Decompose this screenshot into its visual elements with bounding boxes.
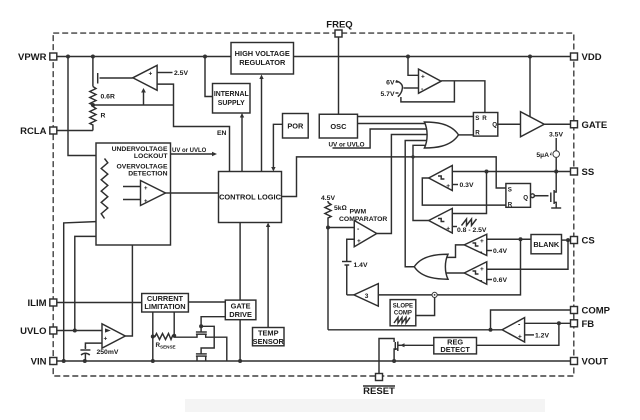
current source 5uA (553, 151, 560, 158)
svg-text:0.6R: 0.6R (101, 94, 115, 101)
block REG DETECT (434, 338, 477, 355)
dashed border of IC (53, 33, 574, 376)
node VDD-B (528, 55, 532, 59)
svg-text:DRIVE: DRIVE (229, 310, 252, 319)
svg-text:RCLA: RCLA (20, 126, 47, 137)
svg-text:COMP: COMP (394, 310, 412, 316)
battery 1.4V (342, 261, 352, 263)
block TEMP SENSOR (253, 328, 285, 347)
transistor driver FET1 (196, 331, 207, 333)
wire RCLA to R bottom (57, 130, 93, 132)
svg-text:+: + (446, 226, 450, 233)
wire 3.5V to current source to SS (555, 138, 557, 151)
wire OVP comp output to OR input5 (413, 145, 431, 220)
svg-text:SENSOR: SENSOR (253, 337, 285, 346)
wire FREQ to OSC (338, 37, 340, 114)
svg-text:Q: Q (492, 122, 497, 129)
svg-text:+: + (144, 199, 148, 205)
svg-text:RESET: RESET (363, 386, 395, 397)
wire control logic to HV regulator (arrow up) (261, 77, 263, 172)
transistor pass switch bar (97, 73, 99, 84)
wire OSC to latch S (358, 116, 474, 118)
node VPWR-A (66, 55, 70, 59)
reference 250mV (80, 349, 90, 351)
pin VPWR (50, 53, 57, 60)
wire gain3 amp output (347, 294, 354, 296)
wire 0.6V comp output to lower OR (445, 272, 465, 274)
node FB junction (557, 321, 561, 325)
wire VIN VOUT rail (57, 360, 571, 362)
block CONTROL LOGIC (219, 172, 282, 223)
block BLANK (531, 235, 562, 254)
svg-text:+: + (446, 183, 450, 190)
wire 4.5V reference chain (327, 201, 329, 203)
resistor 0.6R (90, 87, 96, 106)
wire UVLO box output to control logic (171, 192, 219, 194)
wire VPWR rail to HV regulator and VDD (57, 56, 231, 58)
svg-text:SUPPLY: SUPPLY (218, 100, 245, 107)
comparator 0.3V (points left) (429, 166, 453, 191)
svg-text:FREQ: FREQ (326, 20, 352, 31)
svg-text:S: S (475, 115, 479, 122)
pin VOUT (571, 358, 578, 365)
pin COMP (571, 307, 578, 314)
svg-text:+: + (149, 71, 153, 78)
wire UV or UVLO arrow (171, 153, 213, 155)
resistor UVLO divider (101, 159, 108, 219)
svg-text:UV or UVLO: UV or UVLO (172, 148, 207, 154)
pin RESET (376, 374, 383, 381)
op-amp 2.5V clamp (133, 65, 157, 90)
wire UVLO divider to rail (64, 219, 105, 362)
wire main OR to latch R2 (459, 134, 474, 136)
wire OVP comp output to latch R (441, 81, 485, 113)
wire REG DETECT to reset transistor (401, 344, 434, 346)
wire gate drive to driver FET1 gate (201, 317, 225, 332)
svg-text:BLANK: BLANK (533, 240, 560, 249)
node Rsense-R (172, 334, 176, 338)
node UVLO junction (73, 329, 77, 333)
block POR (283, 114, 309, 139)
wire SS to OVP2 comparator input (452, 172, 486, 214)
svg-text:VPWR: VPWR (18, 52, 47, 63)
comparator UVLO 250mV (points right) (102, 324, 125, 348)
node VPWR-C (203, 55, 207, 59)
svg-text:R: R (508, 202, 513, 209)
svg-text:+: + (518, 334, 522, 341)
svg-text:GATE: GATE (582, 120, 608, 131)
wire UVLO pin up to box (75, 236, 111, 330)
node mode line junction (411, 155, 414, 158)
svg-text:EN: EN (217, 130, 227, 137)
svg-text:SLOPE: SLOPE (393, 303, 413, 309)
wire UV or UVLO to OR input2 (333, 129, 431, 148)
wire divider feedback (93, 104, 174, 106)
amplifier gain 3 (points left) (354, 284, 378, 307)
wire current limitation to Rsense left (152, 312, 154, 337)
node VDD-A (406, 55, 410, 59)
pin RCLA (50, 127, 57, 134)
wire UVLO comparator ref (85, 343, 102, 349)
block HIGH VOLTAGE REGULATOR (231, 43, 294, 75)
node FET gate (199, 324, 203, 328)
svg-text:0.6V: 0.6V (493, 277, 507, 284)
wire FET gate cross link (201, 326, 214, 353)
svg-text:S: S (508, 187, 512, 194)
latch SS (S/R/Q) (506, 184, 549, 209)
svg-text:3.5V: 3.5V (549, 132, 563, 139)
pin ILIM (50, 299, 57, 306)
svg-text:Q: Q (523, 195, 528, 202)
wire control logic through gate drive to rail (239, 223, 241, 301)
svg-text:CONTROL LOGIC: CONTROL LOGIC (219, 193, 282, 202)
svg-text:UVLO: UVLO (20, 326, 46, 337)
wire ILIM to current limitation (57, 302, 142, 304)
wire control logic to mode line (282, 157, 506, 197)
wire SS line (452, 171, 570, 173)
hysteresis select 6V 5.7V (396, 81, 403, 97)
block INTERNAL SUPPLY (213, 84, 251, 114)
svg-text:INTERNAL: INTERNAL (214, 91, 249, 98)
gate-driver buffer triangle (521, 112, 545, 137)
node rail-B (83, 359, 87, 363)
svg-text:CS: CS (582, 236, 595, 247)
svg-text:+: + (104, 336, 108, 343)
block GATE DRIVE (225, 300, 256, 320)
svg-text:COMPARATOR: COMPARATOR (339, 216, 387, 223)
wire VDD to gate driver (529, 57, 531, 118)
wire control logic to internal supply (arrow up) (241, 115, 243, 172)
wire Rsense left to rail (152, 337, 154, 362)
comparator PWM (points right) (354, 221, 377, 247)
svg-text:VDD: VDD (582, 52, 602, 63)
svg-text:5kΩ: 5kΩ (334, 205, 347, 212)
node divider junction (91, 103, 95, 107)
svg-text:SS: SS (582, 167, 595, 178)
wire VPWR to internal supply (205, 57, 213, 97)
wire CS to 0.6V comparator plus (487, 240, 568, 269)
comparator 0.6V (points left) (464, 262, 487, 285)
pin SS (571, 168, 578, 175)
svg-text:0.4V: 0.4V (493, 248, 507, 255)
svg-text:POR: POR (287, 122, 304, 131)
summing node circle (432, 292, 437, 297)
node CS-B (566, 238, 570, 242)
wire FB to REG DETECT (477, 323, 559, 345)
svg-text:0.3V: 0.3V (460, 182, 474, 189)
resistor RSENSE (153, 334, 174, 340)
svg-text:R: R (482, 115, 487, 122)
svg-text:1.2V: 1.2V (535, 333, 549, 340)
svg-text:OVERVOLTAGE: OVERVOLTAGE (117, 164, 168, 171)
wire latch Q to gate driver (498, 123, 521, 125)
svg-text:+: + (144, 186, 148, 192)
svg-text:1.4V: 1.4V (354, 262, 368, 269)
wire current limitation to gate drive (188, 301, 225, 303)
svg-text:DETECT: DETECT (440, 345, 470, 354)
wire slope comp to summing node (416, 298, 435, 316)
resistor R (90, 105, 96, 131)
node COMP junction (489, 328, 493, 332)
latch SR main (473, 113, 497, 137)
svg-text:4.5V: 4.5V (321, 195, 335, 202)
svg-text:R: R (475, 130, 480, 137)
svg-text:DETECTION: DETECTION (128, 171, 167, 178)
op-amp UVLO window comparator (141, 181, 166, 206)
svg-text:5.7V: 5.7V (381, 91, 395, 98)
svg-text:R: R (101, 113, 106, 120)
svg-text:LOCKOUT: LOCKOUT (134, 153, 168, 160)
transistor SS discharge (553, 190, 555, 204)
pin GATE (571, 121, 578, 128)
node rail-E (392, 359, 396, 363)
svg-text:FB: FB (582, 319, 595, 330)
svg-text:VOUT: VOUT (582, 357, 609, 368)
svg-text:5µA: 5µA (536, 152, 549, 159)
comparator 0.8-2.5V (points left) (429, 208, 453, 233)
pin FREQ (335, 30, 342, 37)
svg-text:3: 3 (365, 293, 369, 300)
wire lower OR output to OR input4 (405, 141, 430, 267)
watermark bar (185, 399, 545, 412)
wire summing node to gain3 input (378, 294, 432, 296)
wire VDD to OVP comparator plus (408, 57, 419, 76)
svg-text:+: + (357, 238, 361, 245)
svg-text:UV or UVLO: UV or UVLO (329, 142, 365, 149)
svg-text:HIGH VOLTAGE: HIGH VOLTAGE (235, 49, 290, 58)
wire POR to control logic (arrow down) (273, 124, 282, 169)
svg-text:2.5V: 2.5V (174, 70, 188, 77)
node rail-C (151, 359, 155, 363)
svg-text:+: + (421, 74, 425, 81)
svg-text:VIN: VIN (31, 357, 47, 368)
pin FB (571, 320, 578, 327)
op-amp error 1.2V (points left) (502, 318, 524, 342)
block CURRENT LIMITATION (142, 294, 189, 313)
svg-text:COMP: COMP (582, 306, 611, 317)
pin VIN (50, 358, 57, 365)
wire OSC to OR input1 (358, 123, 431, 125)
or-gate main (5-input) (424, 122, 458, 148)
transistor driver FET2 (196, 353, 207, 355)
svg-text:OSC: OSC (330, 122, 347, 131)
wire CS line and blank (487, 238, 531, 240)
wire temp sensor to control logic (arrow up) (267, 225, 269, 328)
comparator 0.4V (points left) (464, 234, 487, 256)
block OSC (319, 114, 357, 138)
svg-text:+: + (480, 238, 484, 245)
node SS-B (554, 170, 558, 174)
pin VDD (571, 53, 578, 60)
node rail-A (62, 359, 66, 363)
wire UVLO pin line (57, 330, 102, 332)
wire 2.5V comparator minus loop to EN (157, 84, 229, 171)
wire CS to summing node (437, 239, 520, 295)
wire 2.5V ref stub (157, 72, 172, 74)
wire node down to COMP line (327, 228, 329, 330)
svg-text:SENSE: SENSE (160, 345, 176, 350)
node Rsense-L (151, 335, 155, 339)
pin CS (571, 237, 578, 244)
node VPWR-B (91, 55, 95, 59)
sawtooth 0.8-2.5V (462, 219, 477, 226)
svg-text:LIMITATION: LIMITATION (144, 302, 185, 311)
pin UVLO (50, 327, 57, 334)
svg-text:UNDERVOLTAGE: UNDERVOLTAGE (112, 146, 168, 153)
svg-text:ILIM: ILIM (28, 298, 47, 309)
wire VPWR down through divider (92, 57, 94, 87)
node SS-A (485, 170, 489, 174)
svg-text:PWM: PWM (350, 209, 367, 216)
wire hysteresis to OVP comparator minus (404, 87, 419, 89)
svg-text:250mV: 250mV (97, 349, 119, 356)
node rail-D (238, 359, 242, 363)
wire PWM comparator plus via 1.4V (347, 239, 355, 261)
wire OVP hysteresis feedback (401, 81, 455, 102)
wire node to PWM comparator minus (328, 227, 354, 229)
transistor reset detect (397, 342, 399, 352)
wire error amp output long line (328, 329, 502, 331)
svg-text:0.8 - 2.5V: 0.8 - 2.5V (457, 227, 487, 234)
wire FB line (525, 322, 571, 324)
wire 0.4V comp output to lower OR (445, 245, 465, 258)
wire current limitation to Rsense right (173, 312, 175, 336)
svg-text:REGULATOR: REGULATOR (239, 58, 286, 67)
op-amp OVP 6V/5.7V (419, 69, 442, 93)
block SLOPE COMP (390, 300, 416, 326)
wire COMP pin to error amp output (491, 310, 571, 330)
node CS-A (519, 237, 523, 241)
svg-text:+: + (480, 266, 484, 273)
block UNDERVOLTAGE LOCKOUT / OVERVOLTAGE DETECTION (96, 143, 171, 245)
wire gate driver to GATE pin (544, 123, 570, 125)
node PWM minus node (326, 226, 330, 230)
wire 0.3V comp output to SS latch R (422, 178, 506, 205)
or-gate lower (mirrored) (414, 254, 448, 279)
svg-text:6V: 6V (386, 80, 395, 87)
wire PWM comp output to OR input3 (377, 135, 431, 234)
wire VPWR down to UVLO block (68, 57, 97, 156)
wire UVLO comp output up to box (125, 245, 132, 336)
